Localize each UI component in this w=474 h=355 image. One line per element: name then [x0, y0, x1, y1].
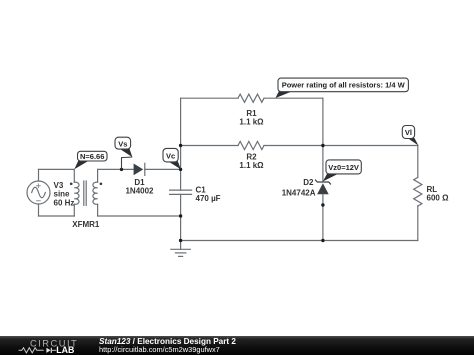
junction node ground rail left [179, 239, 182, 242]
wire R2 branch to RL column [323, 145, 418, 147]
wire C1 bottom plate to junction [180, 194, 182, 216]
annotation N=6.66 [74, 151, 107, 169]
svg-text:1.1 kΩ: 1.1 kΩ [239, 161, 264, 170]
label V3 value [54, 181, 75, 207]
junction node at R2 left [179, 144, 182, 147]
resistor R1 [238, 94, 264, 102]
wire RL top lead [417, 146, 419, 178]
svg-text:1.1 kΩ: 1.1 kΩ [239, 118, 264, 127]
flag node Vc [163, 148, 181, 169]
wire top-left horizontal (V3 to XFMR1 primary) [39, 168, 75, 170]
svg-text:R1: R1 [246, 109, 257, 118]
diode D1 [134, 163, 145, 175]
transformer XFMR1 [70, 181, 102, 205]
wire R1 right drop to R2 branch [322, 98, 324, 145]
svg-text:D1: D1 [134, 178, 145, 187]
wire junction down to ground rail [180, 216, 182, 241]
svg-text:Vz0=12V: Vz0=12V [328, 163, 359, 172]
annotation power rating [276, 78, 409, 98]
svg-text:Power rating of all resistors:: Power rating of all resistors: 1/4 W [282, 81, 406, 90]
label R2 value [239, 152, 264, 170]
svg-text:LAB: LAB [56, 345, 74, 355]
label D2 [282, 178, 316, 198]
svg-text:D2: D2 [303, 178, 314, 187]
resistor R2 [238, 141, 264, 149]
CircuitLab logo [12, 336, 102, 355]
wire D1 cathode to node Vc [145, 168, 181, 170]
wire V3 bottom lead [38, 204, 40, 216]
wire R1 right lead [264, 97, 323, 99]
label RL value [427, 185, 450, 203]
zener diode D2 [316, 180, 331, 194]
svg-text:1N4742A: 1N4742A [282, 189, 316, 198]
wire V3 top lead [38, 169, 40, 181]
flag Vl [402, 126, 418, 146]
resistor RL [414, 177, 422, 206]
junction node D2 anode [321, 203, 324, 206]
junction node D2/R2 [321, 144, 324, 147]
wire secondary top horizontal (XFMR1 to D1) [98, 168, 134, 170]
svg-text:XFMR1: XFMR1 [72, 220, 100, 229]
annotation Vz0=12V [323, 160, 361, 182]
wire node Vc vertical up to R1 branch [180, 98, 182, 169]
label R1 value [239, 109, 264, 127]
svg-text:V3: V3 [54, 181, 64, 190]
junction node C1 bottom [179, 214, 182, 217]
wire XFMR1 primary bottom stub [73, 204, 75, 216]
svg-text:1N4002: 1N4002 [125, 187, 154, 196]
svg-text:R2: R2 [246, 152, 257, 161]
label C1 value [196, 185, 221, 203]
svg-text:Vc: Vc [166, 151, 175, 160]
wire bottom rail (ground junction to RL bottom) [181, 240, 418, 242]
junction node at Vs tap [120, 168, 123, 171]
ground [171, 241, 191, 257]
wire XFMR1 primary top stub [73, 169, 75, 182]
label D1 [125, 178, 154, 196]
voltage source V3 [27, 181, 50, 204]
svg-text:600 Ω: 600 Ω [427, 193, 450, 202]
svg-text:sine: sine [54, 190, 71, 199]
wire D2 anode down to bottom rail [322, 194, 324, 240]
wire R2 right lead [264, 145, 323, 147]
wire bottom horizontal (XFMR1 secondary to C1 junction) [98, 215, 181, 217]
junction node Vc [179, 168, 182, 171]
junction node D2 bottom [321, 239, 324, 242]
svg-text:Vs: Vs [118, 139, 127, 148]
svg-text:Vl: Vl [405, 128, 412, 137]
wire bottom-left horizontal (V3 to XFMR1 primary) [39, 215, 75, 217]
svg-text:60 Hz: 60 Hz [54, 198, 75, 207]
svg-text:470 µF: 470 µF [196, 194, 221, 203]
wire RL bottom lead [417, 206, 419, 241]
svg-text:N=6.66: N=6.66 [80, 152, 104, 161]
capacitor C1 [170, 190, 192, 194]
wire XFMR1 secondary bottom stub [97, 204, 99, 216]
wire R1 left lead [181, 97, 238, 99]
wire D2 column top (R2 branch to zener cathode) [322, 146, 324, 182]
wire XFMR1 secondary top stub [97, 169, 99, 182]
wire R2 left lead [181, 145, 238, 147]
footer bar [0, 336, 474, 355]
flag Vs [115, 137, 132, 169]
wire node Vc down to C1 top plate [180, 169, 182, 190]
